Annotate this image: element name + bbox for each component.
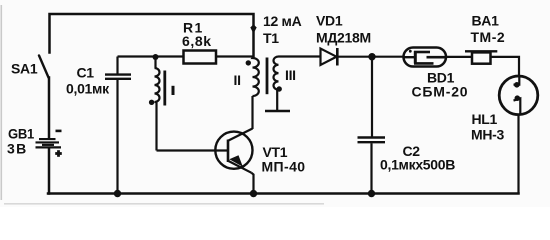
svg-text:C1: C1	[77, 65, 95, 81]
svg-text:GB1: GB1	[8, 126, 34, 142]
svg-text:МП-40: МП-40	[262, 159, 306, 175]
transformer T1 winding I	[155, 57, 160, 151]
transformer T1 winding II	[253, 57, 259, 130]
svg-text:12 мА: 12 мА	[263, 13, 302, 29]
transistor VT1	[215, 132, 252, 169]
node dot C1/bottom rail	[114, 190, 121, 197]
wire bottom rail	[48, 192, 519, 195]
svg-text:T1: T1	[263, 30, 279, 46]
wire base lead	[157, 149, 229, 151]
transformer T1 core (winding I)	[163, 71, 166, 106]
capacitor C2	[358, 138, 386, 194]
capacitor C1	[105, 57, 131, 194]
wire emitter to bottom rail	[252, 173, 254, 194]
battery plus sign	[55, 150, 62, 157]
svg-text:BA1: BA1	[472, 13, 500, 29]
phasing dot winding II	[246, 60, 251, 65]
current arrow 12 mA	[250, 24, 257, 33]
svg-text:0,01мк: 0,01мк	[66, 81, 110, 97]
svg-text:III: III	[285, 67, 296, 83]
lamp HL1	[499, 76, 538, 115]
svg-text:HL1: HL1	[472, 111, 498, 127]
transistor base bar	[227, 140, 230, 163]
svg-text:VD1: VD1	[316, 13, 343, 29]
node dot emitter/bottom rail	[250, 190, 257, 197]
wire C2 branch	[371, 57, 373, 137]
geiger tube BD1	[404, 48, 447, 67]
switch SA1	[39, 56, 49, 78]
node dot C2/bottom rail	[368, 190, 375, 197]
emitter arrow	[229, 155, 243, 167]
scan artifact bottom streak	[4, 203, 324, 205]
svg-text:SA1: SA1	[11, 61, 38, 77]
wire lamp to bottom rail	[517, 115, 519, 194]
battery GB1	[36, 139, 62, 147]
node dot winding I top	[153, 54, 159, 60]
svg-text:0,1мкх500В: 0,1мкх500В	[380, 157, 455, 173]
resistor R1	[184, 51, 217, 64]
phasing dot winding I	[149, 100, 154, 105]
svg-text:МД218М: МД218М	[316, 30, 371, 46]
lamp bottom electrode	[514, 98, 521, 114]
phone BA1	[465, 50, 497, 52]
wire diode to node	[337, 56, 403, 58]
geiger tube inner speck	[409, 50, 412, 53]
transformer T1 core (II/III)	[266, 58, 269, 95]
wire R1 row left segment	[118, 55, 184, 57]
lamp top electrode	[514, 76, 520, 84]
node dot diode/C2	[368, 53, 375, 60]
ground symbol	[265, 110, 290, 112]
diode VD1	[321, 48, 338, 66]
transformer T1 winding III	[274, 57, 279, 111]
svg-text:СБМ-20: СБМ-20	[412, 84, 469, 100]
svg-text:МН-3: МН-3	[471, 127, 505, 143]
wire phone to lamp	[491, 57, 520, 76]
svg-text:ТМ-2: ТМ-2	[471, 29, 506, 45]
wire top rail	[50, 14, 254, 57]
battery minus sign	[56, 130, 62, 133]
wire left vertical bottom	[48, 148, 51, 193]
label I	[172, 86, 175, 95]
phasing dot winding III	[277, 86, 282, 91]
svg-text:6,8k: 6,8k	[182, 33, 212, 49]
wire R1 row right segment	[216, 55, 254, 57]
transistor emitter lead	[229, 161, 252, 173]
wire winding III top to diode	[279, 55, 321, 57]
scan artifact left edge	[1, 5, 3, 200]
wire tube to phone	[446, 56, 472, 58]
wire left vertical mid	[48, 78, 51, 138]
svg-text:II: II	[234, 72, 241, 88]
transistor collector lead	[229, 129, 253, 141]
svg-text:3В: 3В	[7, 141, 28, 157]
